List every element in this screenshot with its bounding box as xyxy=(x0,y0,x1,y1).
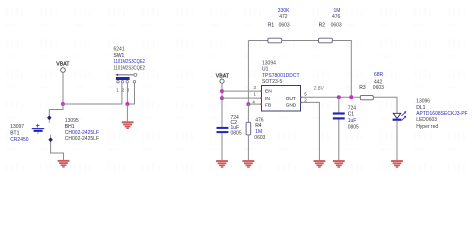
label U1 xyxy=(262,67,269,73)
wire R1 riser to FB xyxy=(247,41,249,105)
label R2 xyxy=(319,23,326,29)
svg-text:13097: 13097 xyxy=(10,124,24,130)
label C2 1uF xyxy=(231,125,240,131)
label C1 1uF xyxy=(348,118,357,124)
label R4 0603 xyxy=(254,135,265,141)
wire C2 to ground xyxy=(221,133,223,160)
U1 pin text EN xyxy=(265,89,272,95)
wire EN xyxy=(222,90,262,92)
label BH1 xyxy=(65,124,75,130)
net label VBAT left xyxy=(56,61,70,67)
label R1 0603 xyxy=(279,23,290,29)
svg-text:0603: 0603 xyxy=(373,85,384,91)
junction IN node xyxy=(220,96,224,100)
wire R3 to LED xyxy=(373,97,397,113)
label CR2450 xyxy=(10,137,29,143)
svg-text:GND: GND xyxy=(286,102,297,108)
label R3 0603 xyxy=(373,85,384,91)
label R3 xyxy=(359,85,366,91)
LED DL1 triangle xyxy=(393,113,401,118)
U1 pin text IN xyxy=(265,96,270,102)
svg-text:CH002-2425LF: CH002-2425LF xyxy=(65,136,99,142)
svg-text:5: 5 xyxy=(304,91,307,96)
label C2 0805 xyxy=(231,131,242,137)
label 1101M2S3CQE2 value xyxy=(114,59,146,65)
wire C1 to ground xyxy=(338,120,340,161)
ground under LED xyxy=(391,160,403,168)
svg-text:BH1: BH1 xyxy=(65,124,75,130)
switch pin number 3 xyxy=(127,87,130,92)
svg-text:FB: FB xyxy=(265,102,271,108)
label 13095 xyxy=(65,118,79,124)
op-amp U1 box xyxy=(262,86,301,112)
svg-text:APTD1608SECKJ3-PF: APTD1608SECKJ3-PF xyxy=(416,111,467,117)
svg-text:CH002-2425LF: CH002-2425LF xyxy=(65,130,99,136)
wire IN xyxy=(222,97,262,99)
label C1 xyxy=(348,112,355,118)
wire VBAT right vertical xyxy=(221,83,223,127)
svg-text:VBAT: VBAT xyxy=(216,73,230,79)
label 1M xyxy=(334,8,341,14)
svg-text:6241: 6241 xyxy=(114,47,125,53)
resistor R3 xyxy=(360,96,373,100)
wire GND pin xyxy=(301,102,320,160)
label C1 724 xyxy=(348,106,357,112)
label 476 R2 xyxy=(332,14,341,20)
wire R1 to R2 xyxy=(282,40,319,42)
wire FB to R4 xyxy=(247,104,249,122)
svg-text:VBAT: VBAT xyxy=(56,61,70,67)
U1 pin number 2 xyxy=(304,98,307,103)
junction switch ground node xyxy=(125,102,129,106)
label TPS78001DDCT xyxy=(262,73,300,79)
wire battery node to switch xyxy=(63,103,122,105)
label 6241 xyxy=(114,47,125,53)
U1 pin number 5 xyxy=(304,91,307,96)
label 13097 xyxy=(10,124,24,130)
svg-text:R1: R1 xyxy=(268,23,275,29)
svg-text:2: 2 xyxy=(122,87,125,92)
ground under switch xyxy=(122,121,134,129)
switch pin number 1 xyxy=(116,87,119,92)
svg-text:BT1: BT1 xyxy=(10,131,19,137)
switch SW1 pin circles xyxy=(117,81,136,83)
svg-text:1: 1 xyxy=(253,92,256,97)
LED DL1 cathode bar xyxy=(393,119,402,121)
junction EN node xyxy=(220,89,224,93)
svg-text:U1: U1 xyxy=(262,67,269,73)
svg-text:EN: EN xyxy=(265,89,272,95)
junction R2 riser node xyxy=(349,95,353,99)
net label VBAT right xyxy=(216,73,230,79)
label C1 0805 xyxy=(348,125,359,131)
junction C1 node xyxy=(337,95,341,99)
ground under battery xyxy=(58,160,70,168)
label APTD1608SECKJ3-PF xyxy=(416,111,467,117)
label 476 R4 xyxy=(255,117,264,123)
label R1 xyxy=(268,23,275,29)
svg-text:0603: 0603 xyxy=(254,135,265,141)
power terminal VBAT right xyxy=(220,79,224,83)
resistor R4 xyxy=(246,122,251,135)
U1 pin text GND xyxy=(286,102,297,108)
resistor R1 xyxy=(268,38,282,43)
capacitor C2 plates xyxy=(217,127,229,133)
U1 pin number 3 xyxy=(253,85,256,90)
wire VBAT left vertical xyxy=(62,72,64,104)
junction FB node xyxy=(246,102,250,106)
svg-text:R2: R2 xyxy=(319,23,326,29)
svg-text:3: 3 xyxy=(253,85,256,90)
svg-text:OUT: OUT xyxy=(286,96,296,102)
label 13094 xyxy=(262,61,276,67)
svg-text:1101M2S3CQE2: 1101M2S3CQE2 xyxy=(114,66,146,72)
svg-text:4: 4 xyxy=(252,99,255,104)
label CH002-2425LF footprint xyxy=(65,136,99,142)
wire switch to ground xyxy=(126,104,128,121)
svg-text:LED0603: LED0603 xyxy=(416,117,437,123)
svg-text:IN: IN xyxy=(265,96,270,102)
U1 pin connection dots xyxy=(260,90,302,105)
label 330K xyxy=(278,8,290,14)
label 472 xyxy=(279,14,288,20)
svg-text:R3: R3 xyxy=(359,85,366,91)
svg-text:0805: 0805 xyxy=(348,125,359,131)
svg-text:Hyper red: Hyper red xyxy=(416,124,438,130)
wire C1 drop xyxy=(338,97,340,112)
label 442 xyxy=(374,79,383,85)
svg-text:476: 476 xyxy=(332,14,341,20)
ground under R4 xyxy=(243,160,255,168)
svg-text:SOT23-5: SOT23-5 xyxy=(262,79,283,85)
svg-text:13096: 13096 xyxy=(416,99,430,105)
svg-text:SW1: SW1 xyxy=(114,53,125,59)
svg-text:330K: 330K xyxy=(278,8,290,14)
svg-text:1uF: 1uF xyxy=(348,118,357,124)
power terminal VBAT left xyxy=(61,68,66,73)
switch SW1 actuator xyxy=(115,73,137,76)
label BT1 xyxy=(10,131,19,137)
label CH002-2425LF value xyxy=(65,130,99,136)
svg-text:1101M2S3CQE2: 1101M2S3CQE2 xyxy=(114,59,146,65)
svg-text:2: 2 xyxy=(304,98,307,103)
wire switch pin 3 down xyxy=(126,83,128,104)
label Hyper red xyxy=(416,124,438,130)
wire LED to ground xyxy=(396,121,398,160)
svg-text:0603: 0603 xyxy=(331,23,342,29)
ground under C1 xyxy=(333,160,345,168)
wire switch pin 4 down xyxy=(127,83,134,104)
U1 pin text FB xyxy=(265,102,271,108)
switch pin number 2 xyxy=(122,87,125,92)
svg-text:68R: 68R xyxy=(374,72,384,78)
net label 2.8V xyxy=(314,86,325,92)
label LED0603 xyxy=(416,117,437,123)
junction battery node xyxy=(61,102,65,106)
resistor R2 xyxy=(319,38,333,43)
label R4 1M xyxy=(255,129,262,135)
label 13096 xyxy=(416,99,430,105)
U1 pin number 4 xyxy=(252,99,255,104)
switch SW1 body xyxy=(116,77,130,80)
capacitor C1 plates xyxy=(333,112,345,119)
svg-text:0603: 0603 xyxy=(279,23,290,29)
svg-text:2.8V: 2.8V xyxy=(314,86,325,92)
ground under GND pin xyxy=(314,160,326,168)
BH1 pin 2 diamond xyxy=(48,135,52,143)
label 724 C2 xyxy=(231,115,240,121)
svg-text:CR2450: CR2450 xyxy=(10,137,29,143)
U1 pin text OUT xyxy=(286,96,296,102)
ground under C2 xyxy=(216,160,228,168)
svg-text:472: 472 xyxy=(279,14,288,20)
label R2 0603 xyxy=(331,23,342,29)
wire riser to switch pin 2 xyxy=(121,83,123,104)
label 1101M2S3CQE2 footprint xyxy=(114,66,146,72)
wire battery positive xyxy=(49,104,63,115)
svg-text:C1: C1 xyxy=(348,112,355,118)
wire top divider left xyxy=(248,40,268,42)
wire battery negative to ground xyxy=(51,142,64,160)
wire FB xyxy=(248,103,261,105)
svg-text:1M: 1M xyxy=(334,8,341,14)
label SOT23-5 xyxy=(262,79,283,85)
battery BT1 plus sign xyxy=(36,124,40,128)
label R4 xyxy=(255,123,262,129)
svg-text:1: 1 xyxy=(116,87,119,92)
label 68R xyxy=(374,72,384,78)
U1 pin number 1 xyxy=(253,92,256,97)
LED DL1 arrows xyxy=(402,111,407,120)
label C2 xyxy=(231,120,238,126)
wire R2 to riser xyxy=(332,41,351,98)
battery BT1 plates xyxy=(32,129,44,135)
BH1 pin 1 diamond xyxy=(47,115,51,123)
wire OUT row xyxy=(301,96,362,98)
label DL1 xyxy=(416,105,425,111)
svg-text:0805: 0805 xyxy=(231,131,242,137)
wire R4 to ground xyxy=(247,135,249,160)
label SW1 xyxy=(114,53,125,59)
